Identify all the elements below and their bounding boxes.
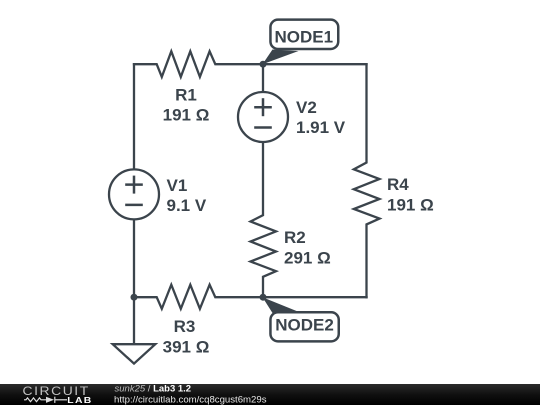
svg-text:sunk25 / Lab3 1.2: sunk25 / Lab3 1.2 [115,384,192,395]
svg-text:291 Ω: 291 Ω [284,249,331,268]
svg-text:NODE1: NODE1 [274,28,333,47]
svg-text:391 Ω: 391 Ω [163,338,210,357]
svg-text:http://circuitlab.com/cq8cgust: http://circuitlab.com/cq8cgust6m29s [114,394,267,405]
svg-text:R4: R4 [387,175,409,194]
svg-text:9.1 V: 9.1 V [167,196,207,215]
svg-text:191 Ω: 191 Ω [387,196,434,215]
svg-text:1.91 V: 1.91 V [296,118,346,137]
svg-text:R2: R2 [284,228,306,247]
svg-text:V2: V2 [296,98,317,117]
svg-text:NODE2: NODE2 [275,315,334,334]
svg-text:R1: R1 [175,86,197,105]
svg-text:191 Ω: 191 Ω [163,106,210,125]
svg-text:R3: R3 [174,317,196,336]
svg-text:LAB: LAB [67,396,92,405]
svg-text:V1: V1 [167,176,188,195]
